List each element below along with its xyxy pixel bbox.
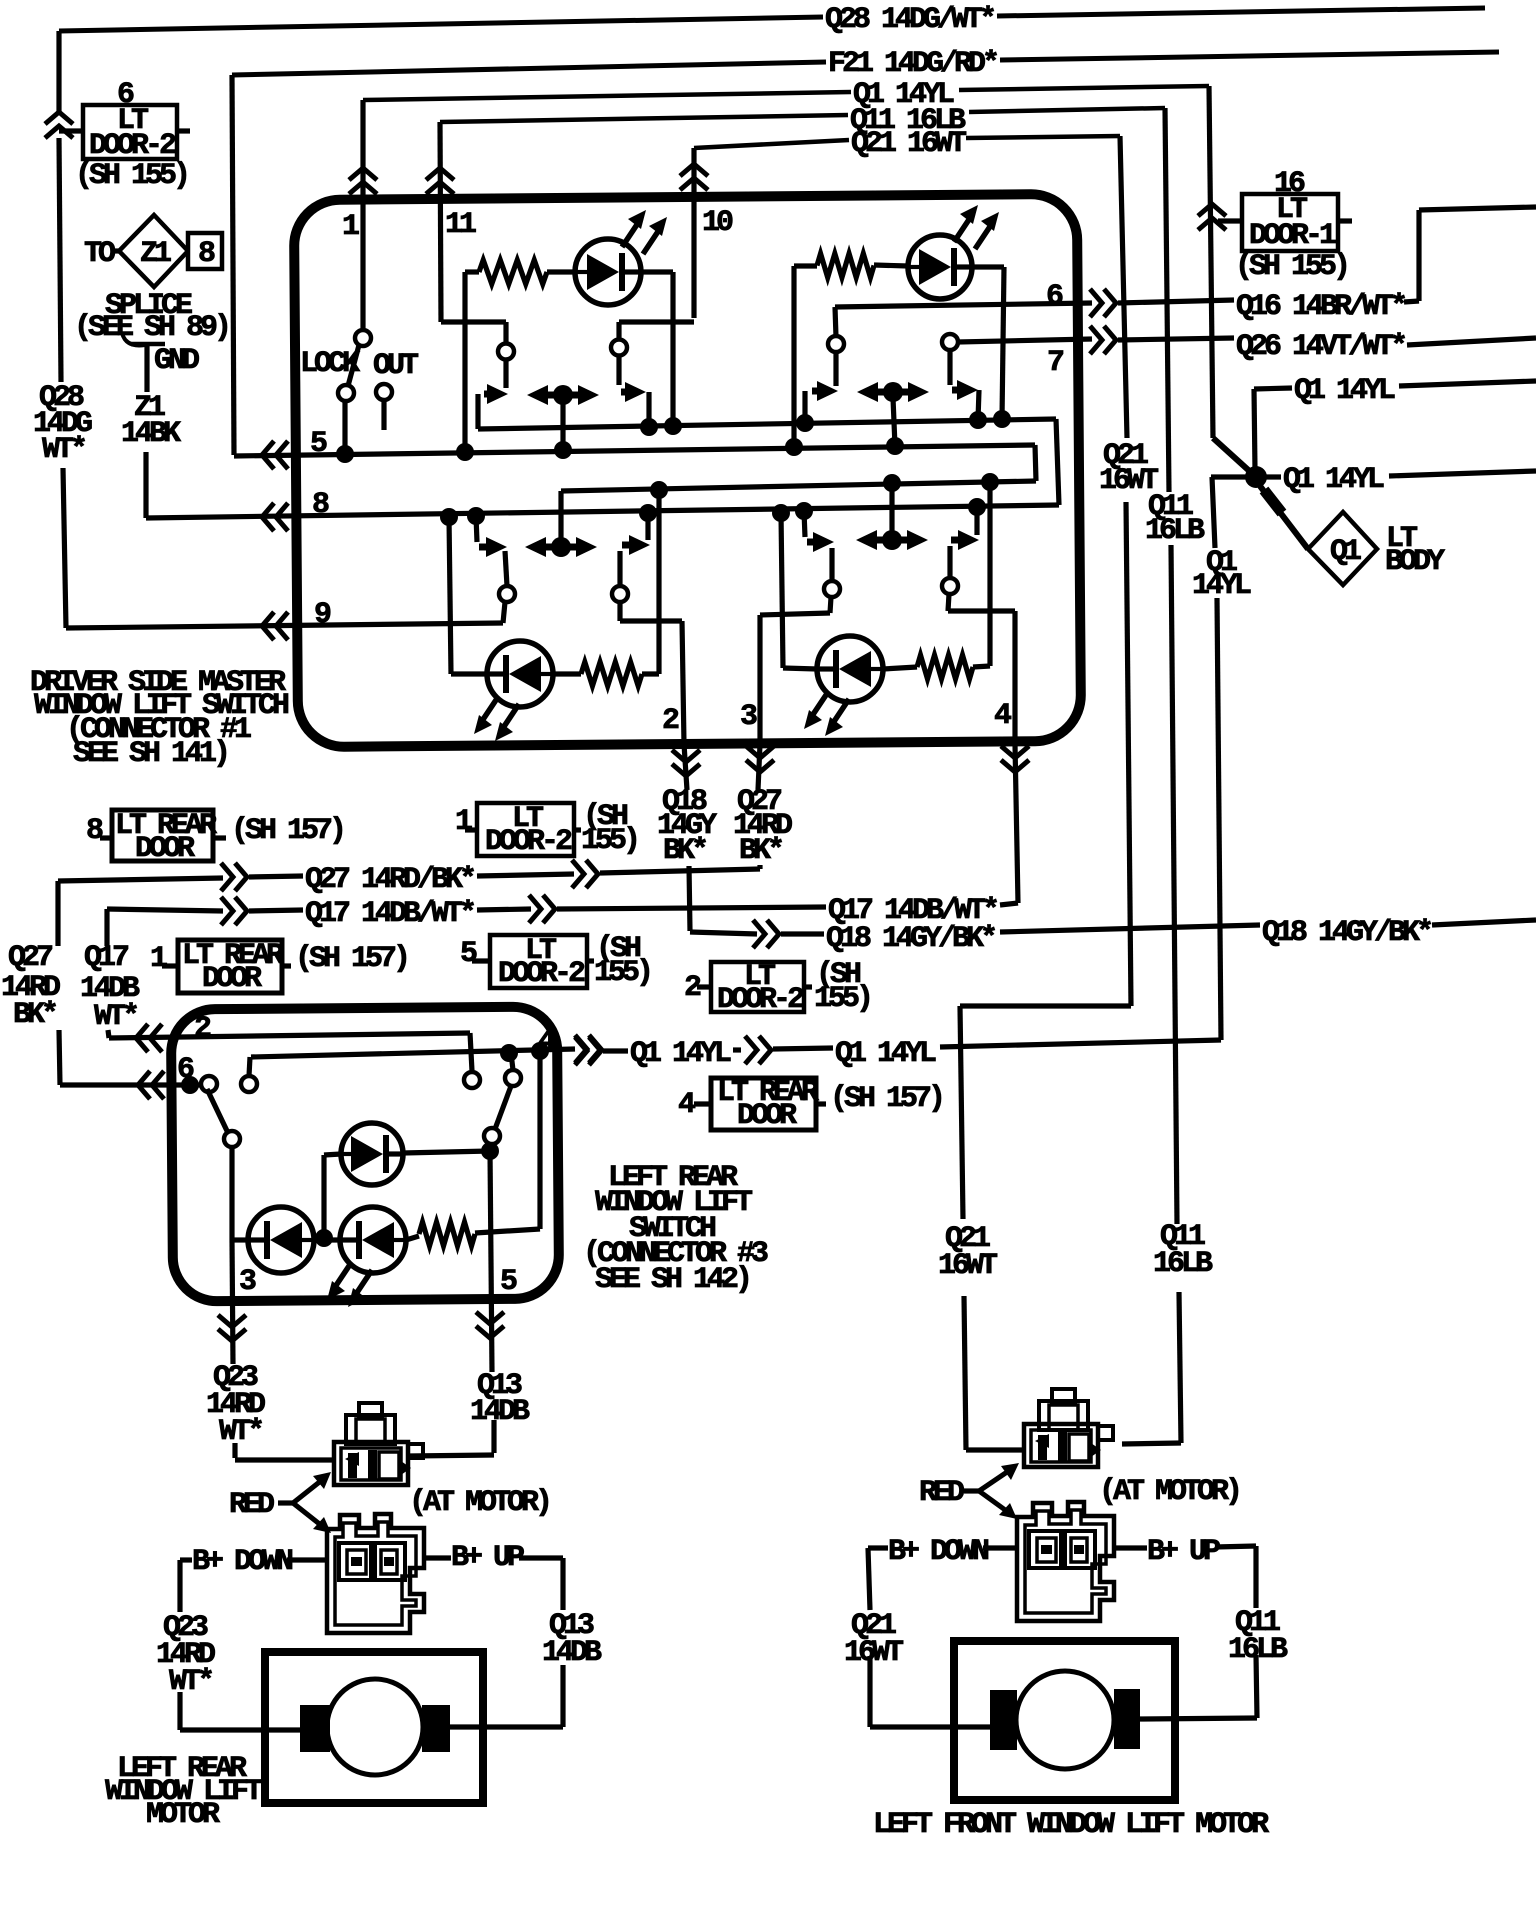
svg-text:Q27: Q27: [8, 941, 52, 975]
connector chevron Q17 row 2: [543, 895, 555, 923]
svg-text:16LB: 16LB: [1153, 1247, 1213, 1281]
wire B+ UP bracket (right): [1114, 1545, 1147, 1550]
contact circle (lower-left, left): [499, 586, 515, 602]
lockout switch LOCK contact: [355, 330, 371, 346]
wire C4 stub: [511, 1053, 513, 1070]
wire resistor R2 left lead down to 5-bus: [791, 266, 796, 447]
wire LED CR3 left lead up to 8-line: [451, 671, 487, 676]
wire pin 11 internal corner to UP contact: [441, 319, 506, 324]
svg-text:BK*: BK*: [663, 834, 706, 868]
wire Z1 14BK rail: [143, 452, 148, 518]
wire Q21 into motor connector: [966, 1447, 1026, 1452]
wiper arrows (top-left group): [543, 392, 555, 399]
wire pin 4 Q17 lead: [1015, 744, 1018, 903]
svg-text:7: 7: [1047, 346, 1063, 380]
svg-text:F21 14DG/RD*: F21 14DG/RD*: [828, 47, 997, 81]
contact circle C3: [464, 1072, 480, 1088]
connector chevron Q1 row 2: [759, 1036, 771, 1064]
wire F21 14DG/RD* run: [232, 62, 826, 75]
contact circle (lower-left, right): [612, 586, 628, 602]
svg-text:(SH 157): (SH 157): [231, 814, 343, 848]
connector chevron 9-line: [262, 612, 274, 640]
wire pin 7 line from contact: [958, 339, 1092, 342]
motor armature circle (right): [1016, 1671, 1114, 1769]
connector chevron Q18 row: [767, 920, 779, 948]
motor harness connector (right): [1017, 1502, 1114, 1621]
wire resistor drop from pin4 row: [537, 1051, 542, 1229]
wire stub LT DOOR-1 left: [1218, 218, 1242, 223]
wire pin 1 Q1 entry: [360, 100, 365, 330]
wire Q13 to motor brush: [560, 1665, 565, 1727]
connector chevron pin 6: [1104, 289, 1116, 317]
wire 9-line from rail to switch pin 9: [66, 623, 503, 628]
svg-text:Z1: Z1: [140, 237, 171, 271]
svg-text:WT*: WT*: [169, 1665, 212, 1699]
connector box LT DOOR-2 (pin 1): [477, 803, 574, 856]
svg-text:Q16 14BR/WT*: Q16 14BR/WT*: [1236, 290, 1405, 324]
wire Q13 14DB lead: [491, 1420, 496, 1453]
wire pin 3 drop: [232, 1240, 233, 1364]
svg-text:LOCK: LOCK: [300, 347, 360, 381]
contact circle (pin7 side): [942, 334, 958, 350]
connector chevron 5-bus: [262, 441, 274, 469]
wire Q28 14DG/WT* top run: [59, 17, 823, 31]
junction dots wiper bus: [650, 481, 668, 499]
wire Q21 16WT top run: [694, 140, 849, 148]
motor harness connector (left): [327, 1514, 424, 1633]
connector box LT DOOR-2 (pin 2): [711, 962, 804, 1012]
junction dots 5-bus: [336, 445, 354, 463]
contact circle (pin11 side): [498, 344, 514, 360]
svg-text:DOOR-2: DOOR-2: [89, 129, 176, 163]
LED CR2 (top right, illumination): [908, 235, 972, 299]
wire Q26 14VT/WT* run: [1118, 338, 1234, 340]
connector chevron pin 5 lower box: [476, 1326, 504, 1338]
motor brush right (right motor): [1114, 1689, 1140, 1749]
wire pin 3 Q27 lead: [757, 865, 762, 869]
resistor R2 (top right): [817, 254, 874, 278]
svg-text:155): 155): [594, 956, 650, 990]
wiper arrows (lower-left group): [541, 544, 553, 551]
wire 8-line from Z1 to switch pin 8: [146, 505, 1059, 518]
svg-text:16WT: 16WT: [844, 1636, 904, 1670]
wire Q23 to motor brush: [177, 1692, 182, 1730]
bracket and arrow (lower-left, left): [476, 516, 477, 542]
wire Q1 14YL rail: [1209, 86, 1213, 438]
wire LED CR2 right lead down to bracket bus: [972, 264, 1004, 269]
LED CR3 (lower left): [487, 641, 553, 707]
wire Q28 left rail: [56, 31, 61, 112]
connector chevron on Q1 rail: [1198, 204, 1226, 216]
wire resistor R4 right lead up to wiper bus: [973, 666, 990, 667]
svg-text:RED: RED: [229, 1488, 274, 1522]
wire resistor R3 right lead up to wiper bus: [642, 671, 659, 676]
motor brush left: [300, 1705, 330, 1752]
svg-text:(SH 155): (SH 155): [75, 159, 187, 193]
connector chevron pin 2 lower box: [136, 1024, 148, 1052]
svg-text:14BK: 14BK: [121, 417, 181, 451]
wiper arrows (top-right group): [873, 389, 885, 396]
wire Q11 to motor brush (right): [1256, 1655, 1257, 1718]
svg-text:B+ UP: B+ UP: [451, 1541, 524, 1575]
wire contact to pin 3: [830, 597, 831, 613]
svg-text:Q17: Q17: [84, 941, 128, 975]
svg-text:BK*: BK*: [739, 834, 782, 868]
wire Q17 rail down: [104, 909, 109, 946]
contact circle (pin10 side): [611, 340, 627, 356]
wire C5 down to LED row: [229, 1147, 234, 1240]
splice tag box 8: [188, 233, 222, 269]
svg-text:Q1 14YL: Q1 14YL: [630, 1037, 731, 1071]
svg-text:16LB: 16LB: [1145, 514, 1205, 548]
contact stub and arrow plate (left): [503, 359, 508, 388]
wire pin 6 line from contact: [835, 303, 1092, 307]
connector box LT DOOR-1: [1242, 194, 1338, 251]
wire Q27 14RD/BK* row: [58, 878, 223, 881]
motor connector (at motor, right): [1052, 1389, 1075, 1403]
wire pin 4 row: [251, 1049, 575, 1057]
connector chevron pin 3: [746, 760, 774, 772]
wire B+ DOWN bracket (right): [868, 1545, 888, 1550]
wire wiper to 5-bus: [893, 398, 895, 446]
wire diagonal to LT BODY splice: [1260, 486, 1308, 549]
wire Q21 jog to motor drop: [960, 1003, 1131, 1008]
wire Q27 rail down left side: [55, 881, 60, 946]
wire C2 stub: [249, 1057, 250, 1076]
wire LED CR7 right lead: [403, 1151, 490, 1153]
connector box LT REAR DOOR (pin 4): [711, 1078, 816, 1130]
svg-text:SEE SH 141): SEE SH 141): [73, 737, 227, 771]
svg-text:B+ DOWN: B+ DOWN: [888, 1535, 989, 1569]
svg-text:(SH 157): (SH 157): [830, 1082, 942, 1116]
wire Q11 16LB top run: [440, 115, 848, 122]
LED CR1 (top left, illumination): [575, 239, 641, 305]
contact circle (lower-right, left): [824, 581, 840, 597]
svg-text:14DB: 14DB: [470, 1395, 530, 1429]
connector chevron Q1 row 1: [589, 1037, 601, 1065]
connector box LT REAR DOOR (pin 8): [112, 810, 213, 861]
LED CR6 (lower box middle): [340, 1207, 406, 1273]
svg-text:SEE SH 142): SEE SH 142): [595, 1263, 749, 1297]
svg-text:Q18 14GY/BK*: Q18 14GY/BK*: [1262, 916, 1431, 950]
svg-text:BODY: BODY: [1385, 545, 1445, 579]
svg-text:DOOR: DOOR: [737, 1099, 797, 1133]
LED CR7 (lower box top, pointing right): [341, 1123, 403, 1185]
left rear window lift switch box outline: [171, 1006, 559, 1301]
svg-text:Q1 14YL: Q1 14YL: [1283, 463, 1384, 497]
wire Q21 to motor brush (right): [867, 1656, 872, 1727]
driver side master window lift switch box outline: [294, 194, 1081, 747]
contact stub and arrow plate (right): [616, 355, 621, 385]
wire Q23 14RD/WT* lead: [232, 1443, 237, 1458]
wire resistor R1 left lead down to 5-bus: [462, 272, 467, 452]
wire pin 2 Q18 lead: [684, 744, 687, 790]
connector chevron pin 7: [1104, 326, 1116, 354]
svg-text:(AT MOTOR): (AT MOTOR): [409, 1486, 549, 1520]
svg-text:(AT MOTOR): (AT MOTOR): [1099, 1475, 1239, 1509]
connector chevron Q17 row 1: [235, 897, 247, 925]
connector chevron 8-line: [262, 503, 274, 531]
svg-text:Q26 14VT/WT*: Q26 14VT/WT*: [1236, 330, 1405, 364]
junction dot pin6 row: [181, 1076, 199, 1094]
connector chevron on Q28 rail: [45, 112, 73, 124]
contact circle C1: [201, 1076, 217, 1092]
junction dots bracket bus: [640, 418, 658, 436]
contact stub and arrow plate (pin6): [833, 352, 838, 386]
wiper bus (lower half): [561, 481, 1036, 491]
svg-text:(SEE SH 89): (SEE SH 89): [74, 311, 228, 345]
svg-text:B+ UP: B+ UP: [1147, 1535, 1220, 1569]
svg-text:DOOR-2: DOOR-2: [717, 983, 804, 1017]
bracket and arrow (lower-left, right): [645, 513, 650, 540]
connector chevron pin 4: [1001, 760, 1029, 772]
svg-text:11: 11: [445, 208, 476, 242]
svg-text:155): 155): [581, 824, 637, 858]
ground symbol GND: [122, 333, 145, 346]
wire contact to 9-line: [503, 602, 505, 623]
wire pin2 to contact C3: [470, 1033, 472, 1071]
wire pin 5 drop: [490, 1151, 492, 1372]
resistor R5 (lower box): [419, 1222, 475, 1246]
wire between LEDs: [314, 1237, 340, 1242]
svg-text:Q1: Q1: [1330, 535, 1361, 569]
motor connector (at motor, left): [359, 1403, 382, 1417]
svg-text:WT*: WT*: [42, 433, 85, 467]
wire B+ UP bracket (left): [424, 1555, 451, 1560]
wire Q17 14DB/WT* row: [107, 909, 223, 911]
switch blade left (C1-C5): [207, 1089, 228, 1133]
svg-text:14YL: 14YL: [1192, 569, 1251, 603]
contact circle C2: [241, 1076, 257, 1092]
svg-text:DOOR: DOOR: [135, 832, 195, 866]
svg-text:WT*: WT*: [94, 1000, 137, 1034]
connector chevron pin 3 lower box: [218, 1329, 246, 1341]
wire stub LT DOOR-1 right: [1338, 218, 1352, 223]
wire LED CR6 to resistor: [406, 1236, 419, 1240]
connector chevron pin 2: [672, 764, 700, 776]
contact stub and arrow plate (pin7): [947, 350, 952, 385]
junction dots pin 4 row: [500, 1044, 518, 1062]
motor armature circle (left): [327, 1679, 423, 1775]
svg-text:155): 155): [814, 982, 870, 1016]
svg-text:10: 10: [702, 206, 733, 240]
wire stub LT DOOR-2 left: [59, 128, 83, 133]
wire Q1 row1 hook: [1254, 389, 1255, 470]
connector box LT DOOR-2 (pin 5): [490, 935, 587, 988]
motor brush right: [422, 1705, 450, 1752]
wire Q1 row2: [1264, 474, 1281, 479]
contact circle (lower-right, right): [942, 578, 958, 594]
svg-text:DOOR-2: DOOR-2: [485, 825, 572, 859]
bracket bus row A: [478, 419, 1056, 429]
wire pin 2 row (Q17 entry): [109, 1033, 470, 1038]
wire LED CR1 right lead down to bracket bus: [641, 269, 673, 274]
RED pointer arrows (right): [964, 1488, 979, 1493]
bracket bus to 8-line link: [1056, 419, 1059, 505]
wire stub LT DOOR-2 right: [177, 128, 190, 133]
wiper arrows (lower-right group): [872, 537, 884, 544]
wire LED CR4 left lead up to 8-line: [783, 668, 817, 669]
wire F21 rail down to 5-bus: [232, 75, 234, 455]
wire wiper to 5-bus: [560, 401, 565, 450]
connector chevron Q27 row 2: [586, 860, 598, 888]
svg-text:RED: RED: [919, 1476, 964, 1510]
wire pin 11 Q11 entry: [440, 122, 441, 322]
svg-text:(SH 155): (SH 155): [1235, 250, 1347, 284]
connector box LT DOOR-2 (top left): [83, 105, 177, 159]
contact circle C4: [505, 1070, 521, 1086]
resistor R3 (lower left): [581, 662, 642, 686]
wire contact to pin 4: [948, 594, 949, 611]
svg-text:MOTOR: MOTOR: [146, 1798, 220, 1832]
wire Q1 stub and down rail: [1211, 474, 1247, 479]
RED pointer arrows (left): [278, 1500, 293, 1505]
LED CR4 (lower right): [817, 636, 883, 702]
svg-text:LEFT FRONT WINDOW LIFT MOTOR: LEFT FRONT WINDOW LIFT MOTOR: [873, 1808, 1269, 1842]
svg-text:Q18 14GY/BK*: Q18 14GY/BK*: [826, 922, 995, 956]
LED CR5 (lower box left): [248, 1207, 314, 1273]
wire Q11 into motor connector: [1122, 1443, 1181, 1444]
svg-text:WT*: WT*: [219, 1415, 262, 1449]
switch blade right (C4-C6): [495, 1086, 511, 1129]
svg-text:TO: TO: [84, 237, 115, 271]
connector chevron pin 6 lower box: [138, 1071, 150, 1099]
LED row wire: [232, 1237, 248, 1242]
left rear window lift motor box: [265, 1652, 483, 1803]
lockout switch blade: [348, 345, 359, 386]
svg-text:DOOR: DOOR: [202, 962, 262, 996]
wire Q16 14BR/WT* run: [1118, 300, 1234, 303]
svg-text:OUT: OUT: [373, 349, 419, 383]
svg-text:DOOR-1: DOOR-1: [1249, 219, 1336, 253]
wire resistor R5 right lead: [475, 1229, 540, 1233]
wire Q16 hook up and right: [1404, 301, 1419, 302]
left front window lift motor box: [954, 1641, 1175, 1800]
resistor R4 (lower right): [917, 655, 973, 679]
wire 5-bus: [234, 445, 1035, 456]
svg-text:16: 16: [1274, 167, 1305, 201]
wire Q17 corner up to pin 4: [1000, 903, 1018, 905]
svg-text:BK*: BK*: [13, 998, 56, 1032]
svg-text:16WT: 16WT: [938, 1249, 998, 1283]
svg-text:Q17 14DB/WT*: Q17 14DB/WT*: [305, 897, 474, 931]
svg-text:B+ DOWN: B+ DOWN: [192, 1545, 293, 1579]
svg-text:Q21 16WT: Q21 16WT: [851, 127, 967, 161]
connector chevron pin 1: [349, 168, 377, 180]
junction node Q1: [1245, 466, 1267, 488]
contact circle C5: [224, 1131, 240, 1147]
bracket and arrow (lower-right, right): [974, 507, 979, 535]
connector chevron pin 10: [680, 164, 708, 176]
junction dots 8-line row: [440, 508, 458, 526]
wire contact to pin 2: [617, 602, 622, 621]
wire pin 6 row (Q27 entry): [60, 1082, 201, 1087]
wire B+ DOWN bracket (left): [180, 1557, 192, 1562]
connector chevron pin 4 row: [589, 1035, 601, 1063]
wire LED CR7 riser: [321, 1155, 326, 1238]
svg-text:Q28 14DG/WT*: Q28 14DG/WT*: [825, 3, 994, 37]
svg-text:14DB: 14DB: [542, 1636, 602, 1670]
svg-text:GND: GND: [154, 344, 199, 378]
wire Q1 diagonal to junction: [1213, 438, 1256, 477]
wire C6 down to pin5 node: [491, 1144, 492, 1151]
svg-text:(SH 157): (SH 157): [295, 942, 407, 976]
junction dot LED row: [315, 1229, 333, 1247]
splice symbol Z1 diamond: [119, 215, 188, 287]
wire Q21 16WT rail: [1120, 136, 1127, 438]
resistor R1 (top left): [479, 260, 547, 284]
svg-text:Q1 14YL: Q1 14YL: [1294, 374, 1395, 408]
motor brush left (right motor): [990, 1690, 1017, 1750]
lockout switch lower contact: [338, 385, 354, 401]
connector box LT REAR DOOR (pin 1): [178, 940, 282, 993]
splice symbol Q1 diamond LT BODY: [1308, 512, 1377, 585]
wire Q1 14YL top run: [363, 92, 851, 100]
wire pin 10 Q21 entry: [691, 148, 696, 318]
wire Q11 16LB rail: [1165, 108, 1169, 492]
connector chevron Q27 row 1: [235, 863, 247, 891]
svg-text:Q27 14RD/BK*: Q27 14RD/BK*: [305, 863, 474, 897]
junction dot pin5 node: [481, 1142, 499, 1160]
contact circle (pin6 side): [828, 336, 844, 352]
wire pin 10 internal corner to contact: [619, 319, 694, 324]
connector chevron pin 11: [426, 168, 454, 180]
contact circle C6: [484, 1128, 500, 1144]
OUT contact: [376, 384, 392, 400]
svg-text:DOOR-2: DOOR-2: [498, 957, 585, 991]
svg-text:Q1 14YL: Q1 14YL: [835, 1037, 936, 1071]
bracket and arrow (lower-right, left): [804, 511, 805, 537]
